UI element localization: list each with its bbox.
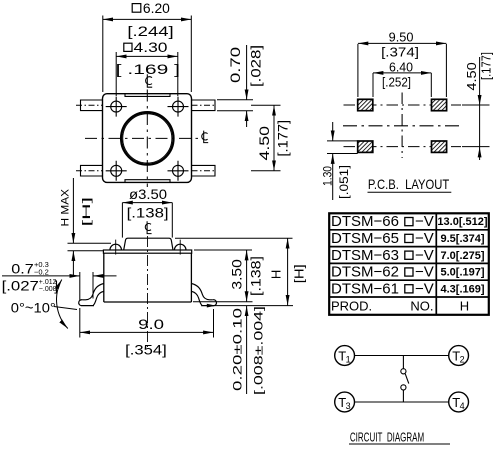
svg-text:CIRCUIT DIAGRAM: CIRCUIT DIAGRAM (350, 430, 424, 444)
svg-text:0°~10°: 0°~10° (11, 301, 56, 316)
dim 9.0 dimension line (80, 331, 214, 333)
svg-text:[.177]: [.177] (480, 52, 494, 80)
svg-text:H: H (460, 298, 469, 313)
dim 9.50 dimension line (358, 42, 447, 44)
dim 1.30 dimension line (332, 122, 334, 141)
lead centerline top-right (192, 104, 217, 106)
top edge cover notch (125, 94, 170, 97)
right lead foot (201, 300, 216, 306)
svg-text:[.244]: [.244] (127, 24, 173, 39)
top view vertical centerline (146, 90, 148, 188)
svg-text:[.028]: [.028] (249, 45, 264, 87)
svg-text:6.20: 6.20 (143, 1, 170, 16)
dim 3.50 dia dimension line (122, 202, 172, 204)
body top extension line (68, 250, 104, 252)
lead centerline top-left (76, 104, 103, 106)
circuit diagram title underline (349, 443, 450, 445)
bottom edge cover notch (125, 180, 170, 183)
body outline (104, 253, 192, 302)
svg-text:−0.2: −0.2 (34, 267, 49, 276)
dim 0.7 leader left (2, 275, 80, 277)
stem (button) (124, 238, 173, 250)
terminal T3 circle (335, 392, 355, 412)
lead top-right (192, 100, 216, 111)
table row DTSM-61 (331, 280, 485, 297)
label T2 (452, 348, 464, 364)
svg-text:[.138]: [.138] (127, 206, 169, 221)
svg-text:DTSM−61: DTSM−61 (331, 280, 399, 297)
dim 1.30 extension lines (327, 140, 358, 142)
svg-text:[.374]: [.374] (381, 46, 419, 60)
svg-text:PROD.: PROD. (331, 298, 372, 313)
svg-text:13.0[.512]: 13.0[.512] (437, 216, 487, 228)
svg-text:9.0: 9.0 (138, 317, 164, 332)
svg-text:1: 1 (346, 354, 351, 364)
svg-text:4: 4 (460, 401, 465, 411)
wire T3 to T4 (355, 401, 449, 403)
lead top-left (81, 100, 103, 111)
dim 9.50 extension lines (357, 44, 359, 97)
pad bottom-right (432, 141, 447, 152)
terminal T4 circle (449, 392, 469, 412)
right lead upper curve (191, 284, 212, 300)
pcb row centerline lower (344, 146, 462, 148)
pad bottom-left (358, 141, 373, 152)
svg-text:ø3.50: ø3.50 (129, 187, 167, 202)
dim 4.50 pcb extension lines (462, 104, 490, 106)
label T3 (338, 395, 350, 411)
svg-text:9.5[.374]: 9.5[.374] (440, 233, 484, 245)
table row PROD NO H (331, 298, 469, 313)
lead bottom-left (81, 165, 103, 176)
right ear tab (174, 244, 186, 250)
dim 3.50 side dimension line (246, 250, 248, 302)
dim text 4.30 (116, 40, 180, 77)
pcb layout title underline (368, 191, 452, 193)
dim 4.50 dimension line (273, 105, 275, 170)
svg-text:DTSM−66: DTSM−66 (331, 213, 399, 230)
switch upper contact (401, 369, 406, 374)
lead centerline bottom-right (192, 170, 217, 172)
svg-text:DTSM−62: DTSM−62 (331, 264, 399, 281)
svg-text:[H]: [H] (291, 264, 306, 283)
svg-text:[H]: [H] (81, 197, 93, 226)
table row DTSM-62 (331, 264, 485, 281)
svg-text:7.0[.275]: 7.0[.275] (440, 250, 484, 262)
table row DTSM-66 (331, 213, 488, 230)
table outer border (329, 213, 489, 314)
svg-text:−V: −V (415, 247, 434, 264)
wire top to switch (402, 356, 404, 369)
dim 9.0 extension lines (79, 308, 81, 338)
svg-text:DTSM−63: DTSM−63 (331, 247, 399, 264)
switch blade (405, 374, 409, 384)
pad top-left (358, 99, 373, 110)
svg-text:0.20±0.10: 0.20±0.10 (231, 307, 245, 391)
centerline symbol right (202, 131, 208, 143)
ear top extension line (68, 242, 112, 244)
pcb vertical centerline (401, 93, 403, 159)
svg-text:[.177]: [.177] (276, 120, 291, 157)
svg-text:3: 3 (346, 401, 351, 411)
dim 3.50 dia extension lines (121, 203, 123, 238)
svg-text:−V: −V (415, 280, 434, 297)
lead bottom-right (192, 165, 216, 176)
dim H dimension line (287, 238, 289, 305)
dim 6.20 extension lines (102, 16, 104, 93)
svg-text:−V: −V (415, 213, 434, 230)
side view vertical centerline (147, 236, 149, 347)
svg-text:NO.: NO. (410, 298, 433, 313)
table row lines (329, 230, 489, 297)
stem top extension line (175, 237, 293, 239)
terminal T1 circle (335, 346, 355, 366)
svg-text:[.051]: [.051] (339, 165, 351, 199)
centerline symbol side view (145, 221, 151, 233)
corner hole bottom-right (173, 165, 184, 176)
svg-text:1.30: 1.30 (323, 166, 335, 186)
dim 4.50 pcb dimension line (479, 57, 481, 105)
svg-text:[.027: [.027 (2, 278, 39, 293)
left lead foot (79, 300, 94, 306)
svg-text:P.C.B. LAYOUT: P.C.B. LAYOUT (368, 176, 450, 192)
switch lower contact (401, 385, 406, 390)
pad top-right (432, 99, 447, 110)
label T1 (338, 348, 350, 364)
svg-text:H: H (269, 270, 284, 279)
svg-text:[.138]: [.138] (249, 256, 264, 296)
angle leader line (54, 307, 77, 310)
angle arc (57, 280, 68, 329)
svg-text:[.354]: [.354] (125, 342, 167, 357)
corner hole top-left (111, 101, 122, 112)
central button circle outer (121, 112, 173, 164)
svg-text:9.50: 9.50 (389, 30, 414, 44)
svg-text:4.50: 4.50 (465, 62, 479, 90)
dim 4.50 extension lines (251, 104, 281, 106)
left ear tab (110, 244, 122, 250)
dim 0.20 dimension line (246, 306, 248, 394)
table row DTSM-63 (331, 247, 485, 264)
svg-text:4.50: 4.50 (257, 126, 272, 161)
dim 4.30 extension lines (115, 52, 117, 96)
svg-text:[ .169 ]: [ .169 ] (116, 62, 180, 77)
svg-text:4.3[.169]: 4.3[.169] (440, 283, 484, 295)
svg-text:[.252]: [.252] (382, 76, 411, 90)
left lead lower curve (93, 291, 104, 305)
wire switch to bottom (402, 390, 404, 402)
dim 6.20 dimension line (103, 18, 192, 20)
lead centerline bottom-left (76, 170, 103, 172)
dim 0.70 dimension line (246, 45, 248, 100)
seating plane arrow (207, 304, 216, 308)
corner hole top-right (173, 101, 184, 112)
svg-text:3.50: 3.50 (230, 259, 245, 289)
cover top plate (103, 250, 191, 253)
svg-text:5.0[.197]: 5.0[.197] (440, 267, 484, 279)
svg-text:DTSM−65: DTSM−65 (331, 230, 399, 247)
dim 6.40 extension lines (372, 73, 374, 97)
svg-text:−V: −V (415, 264, 434, 281)
svg-text:0.70: 0.70 (228, 47, 243, 83)
dim 0.7 leader right part (93, 275, 117, 277)
right lead lower curve (191, 291, 202, 305)
dim 4.30 dimension line (116, 55, 178, 57)
top view switch body outline (103, 94, 192, 183)
svg-text:2: 2 (460, 354, 465, 364)
svg-text:]: ] (54, 278, 58, 293)
centerline symbol top (146, 74, 153, 87)
svg-text:4.30: 4.30 (134, 40, 168, 55)
body bottom extension line (193, 301, 253, 303)
pcb row centerline upper (344, 104, 462, 106)
svg-text:6.40: 6.40 (389, 61, 413, 75)
svg-text:0.7: 0.7 (11, 261, 34, 276)
dim 0.70 extension lines right (217, 99, 253, 101)
corner hole bottom-left (111, 165, 122, 176)
left lead upper curve (82, 284, 103, 300)
svg-text:−V: −V (415, 230, 434, 247)
table column divider (435, 213, 437, 314)
terminal T2 circle (449, 346, 469, 366)
label T4 (452, 395, 464, 411)
wire T1 to T2 (355, 355, 449, 357)
table row DTSM-65 (331, 230, 485, 247)
H MAX dimension line left (72, 178, 74, 243)
pcb middle centerline (343, 125, 460, 127)
svg-text:[.008±.004]: [.008±.004] (252, 306, 266, 395)
dim 6.40 dimension line (373, 72, 431, 74)
central button circle inner (123, 114, 172, 163)
top view horizontal centerline (85, 137, 199, 139)
seating plane line (209, 305, 293, 307)
svg-text:H MAX: H MAX (60, 188, 72, 226)
dim 3.50 side extension line top (194, 249, 252, 251)
dim 0.7 extension lines (79, 272, 81, 301)
dim text 6.20 (127, 1, 173, 39)
